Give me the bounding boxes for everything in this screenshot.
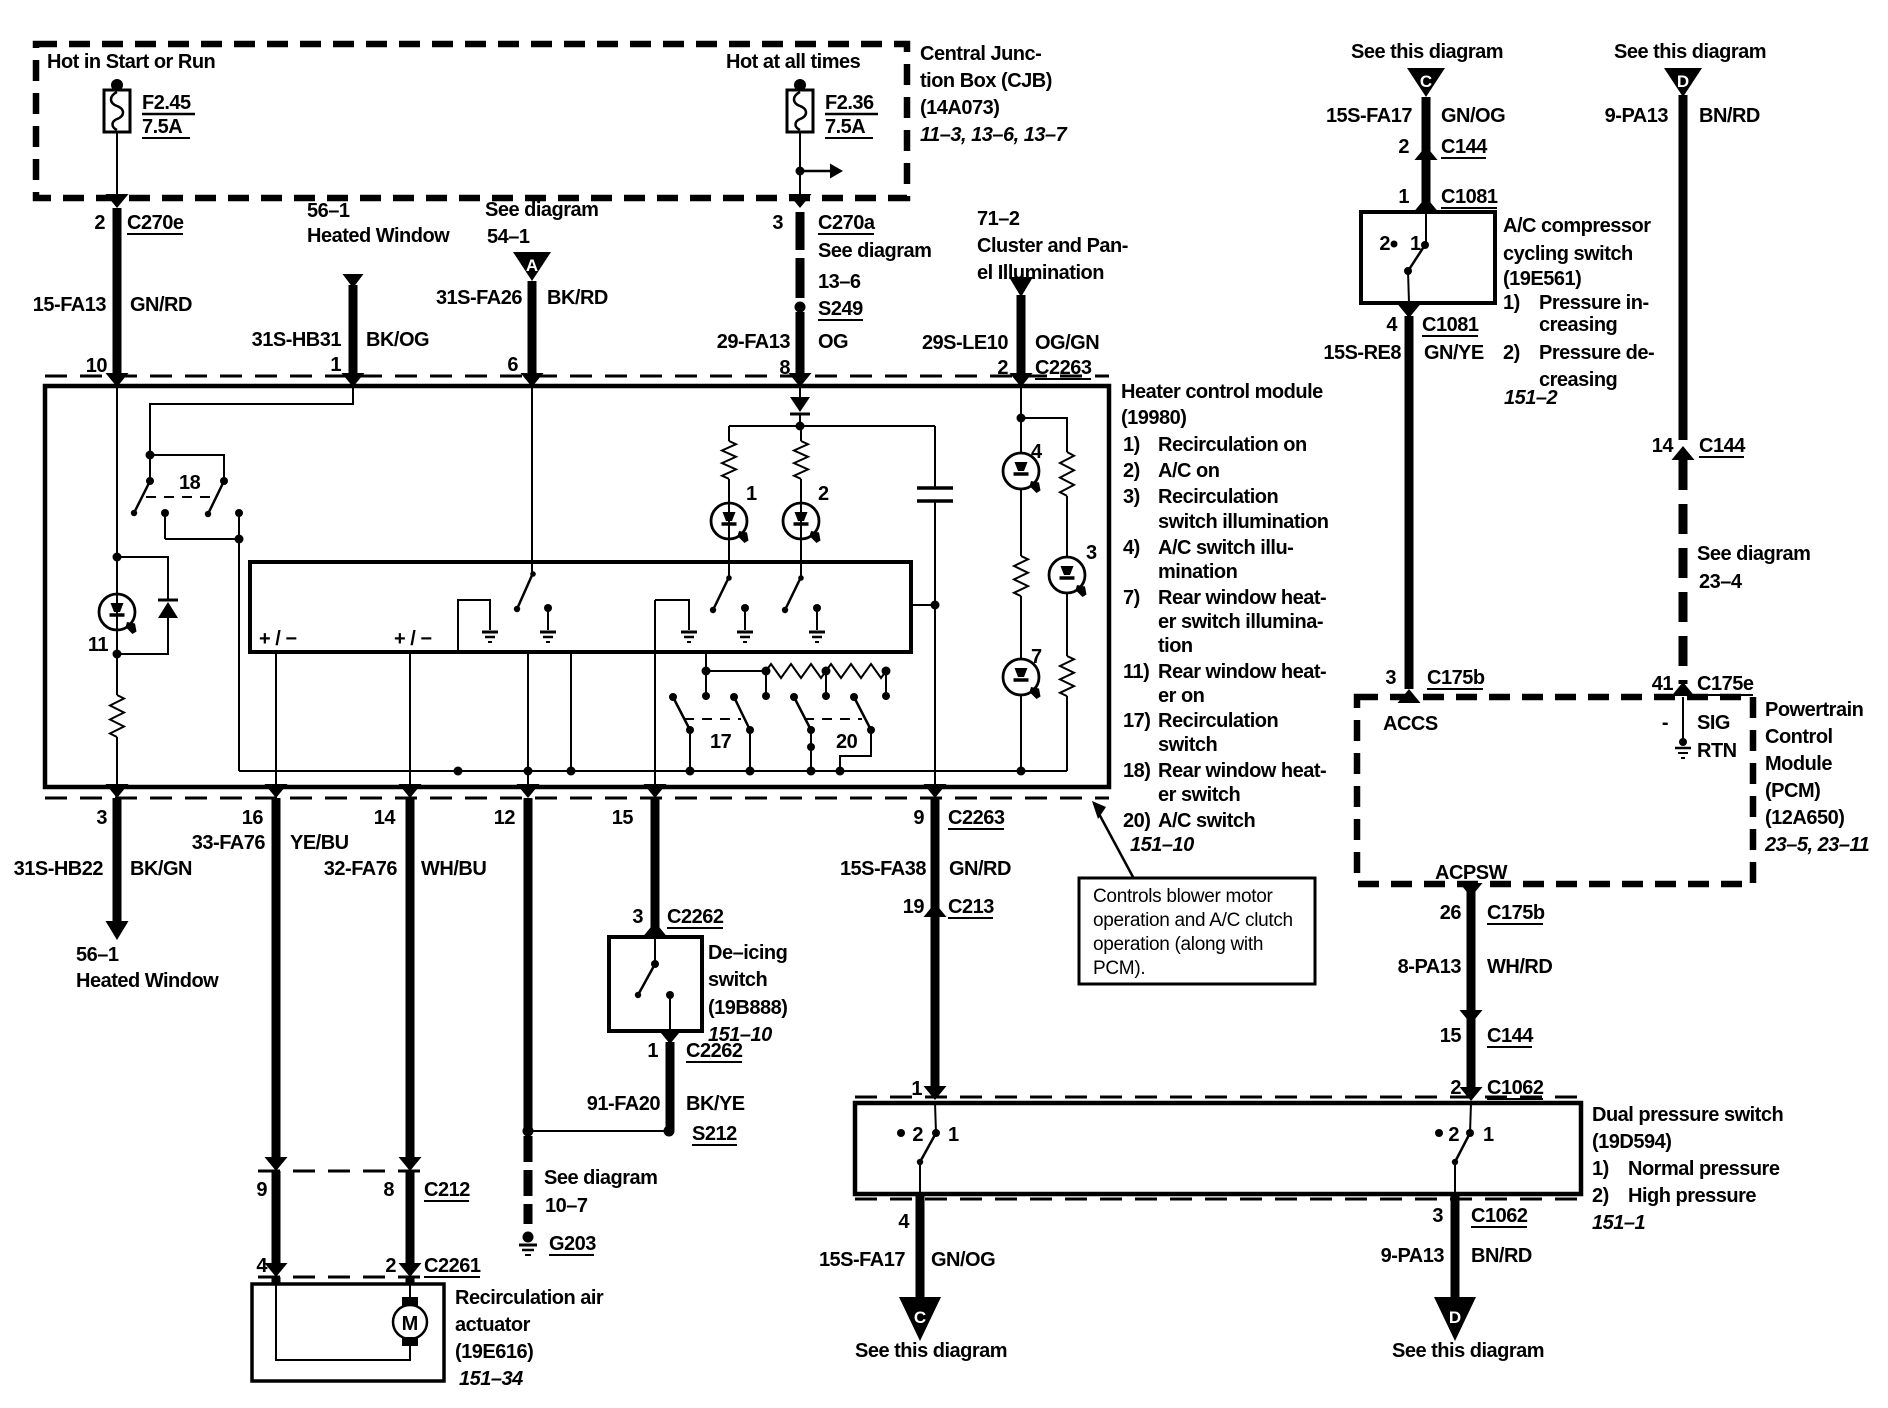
svg-text:G203: G203 xyxy=(549,1233,596,1255)
svg-text:S212: S212 xyxy=(692,1123,737,1145)
svg-text:SIG: SIG xyxy=(1697,712,1730,734)
svg-text:GN/YE: GN/YE xyxy=(1424,342,1484,364)
wire: pin 16 internal xyxy=(275,652,277,787)
svg-text:ACPSW: ACPSW xyxy=(1435,862,1508,884)
svg-text:18): 18) xyxy=(1123,760,1150,782)
svg-text:9: 9 xyxy=(256,1179,267,1201)
svg-text:OG/GN: OG/GN xyxy=(1035,332,1099,354)
svg-text:See this diagram: See this diagram xyxy=(1351,41,1503,63)
svg-text:(19E561): (19E561) xyxy=(1503,268,1581,290)
svg-text:C175b: C175b xyxy=(1427,667,1485,689)
svg-text:BN/RD: BN/RD xyxy=(1471,1245,1532,1267)
note: controls blower motor operation xyxy=(1079,878,1315,984)
svg-text:29S-LE10: 29S-LE10 xyxy=(922,332,1008,354)
svg-text:C: C xyxy=(1420,72,1432,91)
svg-text:C2262: C2262 xyxy=(686,1040,743,1062)
svg-text:Normal pressure: Normal pressure xyxy=(1628,1158,1780,1180)
svg-text:23–4: 23–4 xyxy=(1699,571,1743,593)
svg-text:2): 2) xyxy=(1592,1185,1609,1207)
svg-text:20: 20 xyxy=(836,731,858,753)
svg-text:7: 7 xyxy=(1031,646,1042,668)
svg-text:2: 2 xyxy=(912,1124,923,1146)
svg-text:9: 9 xyxy=(913,807,924,829)
svg-text:91-FA20: 91-FA20 xyxy=(587,1093,661,1115)
diode across lamp 11 xyxy=(113,557,179,659)
svg-text:creasing: creasing xyxy=(1539,314,1617,336)
svg-text:tion Box (CJB): tion Box (CJB) xyxy=(920,70,1052,92)
PCM SIG RTN ground xyxy=(1662,697,1737,762)
svg-text:15S-FA38: 15S-FA38 xyxy=(840,858,926,880)
svg-text:12: 12 xyxy=(494,807,516,829)
A/C compressor cycling switch contacts xyxy=(1379,212,1429,303)
wire: C213 to dual pressure switch pin 1 xyxy=(911,918,946,1100)
svg-text:C1062: C1062 xyxy=(1471,1205,1528,1227)
resistor feeding lamp 1 xyxy=(722,426,736,577)
svg-text:1): 1) xyxy=(1592,1158,1609,1180)
svg-text:C213: C213 xyxy=(948,896,994,918)
wire: pin 2 internal node xyxy=(1017,386,1068,452)
svg-text:7.5A: 7.5A xyxy=(142,116,182,138)
connector C212 xyxy=(256,1171,470,1201)
off-page connector C (bottom) xyxy=(855,1297,1007,1362)
svg-text:14: 14 xyxy=(374,807,397,829)
svg-text:2: 2 xyxy=(1450,1077,1461,1099)
wire 91-FA20 BK/YE below de-icing switch xyxy=(587,1030,745,1131)
diode on pin 8 line xyxy=(790,386,810,426)
svg-text:1: 1 xyxy=(911,1078,922,1100)
heater control module (19980) enclosure xyxy=(45,376,1109,798)
svg-text:(19D594): (19D594) xyxy=(1592,1131,1671,1153)
wire: fuse F2.45 to connector C270e xyxy=(106,132,129,208)
svg-text:3): 3) xyxy=(1123,486,1140,508)
switch on pin 6 line xyxy=(514,386,536,612)
svg-text:See this diagram: See this diagram xyxy=(1392,1340,1544,1362)
indicator lamp 11 (rear window heater on) xyxy=(88,553,137,657)
resistor feeding lamp 2 xyxy=(794,426,808,577)
svg-text:Pressure in-: Pressure in- xyxy=(1539,292,1649,314)
svg-text:See diagram: See diagram xyxy=(544,1167,657,1189)
svg-text:4: 4 xyxy=(1031,441,1043,463)
indicator lamp 2 (A/C on) xyxy=(783,483,829,543)
svg-text:See diagram: See diagram xyxy=(485,199,598,221)
heater box bottom pin labels xyxy=(96,807,633,829)
indicator lamp 3 (recirculation switch illumination) xyxy=(1049,542,1097,597)
svg-text:(14A073): (14A073) xyxy=(920,97,999,119)
wire 15-FA13 GN/RD to heater pin 10 xyxy=(33,208,192,387)
svg-text:26: 26 xyxy=(1440,902,1462,924)
svg-text:-: - xyxy=(1662,712,1668,734)
off-page connector D (bottom) xyxy=(1392,1297,1544,1362)
svg-text:S249: S249 xyxy=(818,298,863,320)
wire 15S-RE8 GN/YE to PCM ACCS xyxy=(1323,304,1484,703)
svg-text:See this diagram: See this diagram xyxy=(1614,41,1766,63)
svg-text:BK/OG: BK/OG xyxy=(366,329,429,351)
svg-text:151–10: 151–10 xyxy=(1130,834,1194,856)
svg-text:actuator: actuator xyxy=(455,1314,531,1336)
wire: switch 18 contacts to bottom rail xyxy=(161,509,244,771)
de-icing switch (19B888) box xyxy=(609,937,702,1031)
svg-text:D: D xyxy=(1449,1308,1461,1327)
switch under lamp 2 xyxy=(782,575,804,613)
connector C213 pin 19 xyxy=(903,896,994,918)
label: see diagram 10-7 xyxy=(544,1167,657,1217)
wire 31S-HB22 BK/GN to 56-1 heated window xyxy=(14,798,220,992)
de-icing switch contacts xyxy=(635,937,674,1031)
resistor above lamp 3 xyxy=(1060,452,1074,558)
ground bracket near pin 14 xyxy=(458,600,498,652)
wire 15S-FA17 GN/OG to connector C xyxy=(819,1194,995,1299)
svg-text:High pressure: High pressure xyxy=(1628,1185,1756,1207)
svg-text:switch illumination: switch illumination xyxy=(1158,511,1329,533)
switch 18 (rear window heater switch, DPST) xyxy=(131,451,228,518)
svg-text:(19B888): (19B888) xyxy=(708,997,787,1019)
svg-text:Central Junc-: Central Junc- xyxy=(920,43,1041,65)
note arrow to heater box xyxy=(1092,801,1133,877)
svg-text:C212: C212 xyxy=(424,1179,470,1201)
ground contact under lamp 1 xyxy=(737,604,753,642)
svg-text:Control: Control xyxy=(1765,726,1833,748)
dual pressure switch right contact (high pressure) xyxy=(1435,1103,1494,1194)
svg-text:2): 2) xyxy=(1503,342,1520,364)
svg-text:2: 2 xyxy=(1448,1124,1459,1146)
heater control module label list xyxy=(1121,381,1329,856)
wire 15S-FA38 GN/RD (pin 9) xyxy=(840,798,1011,918)
wire: fuse F2.36 to connector C270a with branch arrow xyxy=(789,132,844,208)
recirculation air actuator (19E616) box xyxy=(252,1277,444,1381)
svg-text:A/C compressor: A/C compressor xyxy=(1503,215,1651,237)
wire: pin 14 internal xyxy=(409,652,411,787)
svg-text:14: 14 xyxy=(1652,435,1675,457)
dual pressure switch (19D594) box xyxy=(855,1097,1581,1199)
svg-text:C2262: C2262 xyxy=(667,906,724,928)
indicator lamp 4 (A/C switch illumination) xyxy=(1003,418,1043,493)
fuse F2.45 7.5A xyxy=(104,79,195,138)
svg-text:1): 1) xyxy=(1503,292,1520,314)
svg-text:41: 41 xyxy=(1652,673,1674,695)
svg-text:OG: OG xyxy=(818,331,848,353)
indicator lamp 7 (rear window heater switch illumination) xyxy=(1003,646,1042,771)
capacitor xyxy=(917,426,953,605)
svg-text:Dual pressure switch: Dual pressure switch xyxy=(1592,1104,1783,1126)
svg-text:WH/RD: WH/RD xyxy=(1487,956,1552,978)
svg-text:A/C on: A/C on xyxy=(1158,460,1219,482)
svg-text:Powertrain: Powertrain xyxy=(1765,699,1863,721)
svg-text:operation (along with: operation (along with xyxy=(1093,934,1263,955)
heater box pin 16 arrow xyxy=(265,784,288,798)
wire: actuator internal xyxy=(276,1284,410,1360)
label: de-icing switch xyxy=(708,942,787,1046)
wire 32-FA76 WH/BU (pin 14) xyxy=(324,798,487,1171)
svg-text:Module: Module xyxy=(1765,753,1832,775)
svg-text:1: 1 xyxy=(1483,1124,1494,1146)
svg-text:2: 2 xyxy=(818,483,829,505)
svg-text:32-FA76: 32-FA76 xyxy=(324,858,398,880)
svg-text:Cluster and Pan-: Cluster and Pan- xyxy=(977,235,1128,257)
wire: C212 to C2261 (right) xyxy=(399,1171,422,1277)
resistor below lamp 4 xyxy=(1014,488,1028,660)
svg-text:BK/YE: BK/YE xyxy=(686,1093,745,1115)
dual pressure switch left contact (normal pressure) xyxy=(897,1103,959,1194)
svg-text:Heated Window: Heated Window xyxy=(76,970,219,992)
switch 17 (recirculation switch) xyxy=(669,693,754,771)
svg-text:GN/OG: GN/OG xyxy=(931,1249,995,1271)
heater box pin 9 arrow xyxy=(924,784,947,798)
svg-text:C1081: C1081 xyxy=(1441,186,1498,208)
svg-text:56–1: 56–1 xyxy=(76,944,119,966)
svg-text:BK/RD: BK/RD xyxy=(547,287,608,309)
svg-text:See this diagram: See this diagram xyxy=(855,1340,1007,1362)
svg-text:1: 1 xyxy=(647,1040,658,1062)
svg-text:9-PA13: 9-PA13 xyxy=(1605,105,1669,127)
svg-text:Hot at all times: Hot at all times xyxy=(726,51,861,73)
wire 31S-HB31 BK/OG from 56-1 heated window to heater pin 1 xyxy=(252,200,451,387)
svg-text:17: 17 xyxy=(710,731,732,753)
wire 29S-LE10 OG/GN from cluster and panel illumination to heater pin 2 xyxy=(922,208,1128,387)
svg-text:Hot in Start or Run: Hot in Start or Run xyxy=(47,51,215,73)
svg-text:11): 11) xyxy=(1123,661,1149,683)
wire 31S-FA26 BK/RD to heater pin 6 xyxy=(436,281,608,387)
svg-text:(12A650): (12A650) xyxy=(1765,807,1844,829)
svg-text:2): 2) xyxy=(1123,460,1140,482)
label: powertrain control module xyxy=(1764,699,1870,856)
svg-text:Rear window heat-: Rear window heat- xyxy=(1158,661,1326,683)
resistor below lamp 3 xyxy=(1060,592,1074,771)
svg-text:C270a: C270a xyxy=(818,212,876,234)
connector C270e pin 2 xyxy=(94,212,183,234)
svg-text:Recirculation air: Recirculation air xyxy=(455,1287,604,1309)
svg-text:See diagram: See diagram xyxy=(1697,543,1810,565)
svg-text:3: 3 xyxy=(1432,1205,1443,1227)
svg-text:A/C switch: A/C switch xyxy=(1158,810,1255,832)
svg-text:23–5, 23–11: 23–5, 23–11 xyxy=(1764,834,1870,856)
splice S212 xyxy=(664,1123,738,1145)
svg-text:1): 1) xyxy=(1123,434,1140,456)
wire: pin 8 distribution node xyxy=(729,422,935,431)
svg-text:2: 2 xyxy=(94,212,105,234)
svg-text:De–icing: De–icing xyxy=(708,942,787,964)
svg-text:Heater control module: Heater control module xyxy=(1121,381,1323,403)
wire 91-FA13 BK/OG (pin 12) to splice S212 xyxy=(523,798,670,1137)
svg-text:F2.45: F2.45 xyxy=(142,92,191,114)
ground bracket near pin 15 xyxy=(655,600,697,642)
svg-text:8-PA13: 8-PA13 xyxy=(1398,956,1462,978)
svg-text:operation and A/C clutch: operation and A/C clutch xyxy=(1093,910,1293,931)
svg-text:A/C switch illu-: A/C switch illu- xyxy=(1158,537,1293,559)
svg-text:(PCM): (PCM) xyxy=(1765,780,1820,802)
svg-text:15S-FA17: 15S-FA17 xyxy=(819,1249,905,1271)
off-page connector A (see diagram 54-1) xyxy=(485,199,598,281)
svg-text:3: 3 xyxy=(632,906,643,928)
svg-text:4): 4) xyxy=(1123,537,1140,559)
wire: S212 to ground G203 (dashed) xyxy=(524,1136,533,1224)
control unit inner box with +/- terminals xyxy=(250,562,911,652)
svg-text:71–2: 71–2 xyxy=(977,208,1020,230)
svg-text:18: 18 xyxy=(179,472,201,494)
svg-text:4: 4 xyxy=(898,1211,910,1233)
svg-text:15S-FA17: 15S-FA17 xyxy=(1326,105,1412,127)
ground contact under lamp 2 xyxy=(809,604,825,642)
connector C270a pin 3 xyxy=(772,212,875,234)
svg-text:cycling switch: cycling switch xyxy=(1503,243,1633,265)
svg-text:31S-HB22: 31S-HB22 xyxy=(14,858,104,880)
svg-text:15: 15 xyxy=(612,807,634,829)
svg-text:RTN: RTN xyxy=(1697,740,1737,762)
wire: pin 10 internal xyxy=(116,386,118,557)
svg-text:+ / −: + / − xyxy=(394,628,432,650)
svg-text:4: 4 xyxy=(256,1255,268,1277)
svg-text:C2263: C2263 xyxy=(948,807,1005,829)
svg-text:Controls blower motor: Controls blower motor xyxy=(1093,886,1274,907)
svg-text:PCM).: PCM). xyxy=(1093,958,1145,979)
svg-text:15S-RE8: 15S-RE8 xyxy=(1323,342,1401,364)
resistor in series with lamp 11 (pin 3 branch) xyxy=(110,654,124,787)
wire: pin 12 internal xyxy=(524,652,533,787)
svg-text:20): 20) xyxy=(1123,810,1150,832)
svg-text:2: 2 xyxy=(1379,233,1390,255)
svg-text:4: 4 xyxy=(1386,314,1398,336)
svg-text:3: 3 xyxy=(96,807,107,829)
svg-text:M: M xyxy=(402,1313,419,1335)
svg-text:GN/OG: GN/OG xyxy=(1441,105,1505,127)
svg-text:switch: switch xyxy=(708,969,767,991)
svg-text:17): 17) xyxy=(1123,710,1150,732)
svg-text:2: 2 xyxy=(385,1255,396,1277)
node: bracket leg on rail xyxy=(454,767,463,776)
svg-text:151–34: 151–34 xyxy=(459,1368,523,1390)
svg-text:+ / −: + / − xyxy=(259,628,297,650)
heater box pin 3 arrow xyxy=(106,784,129,798)
svg-text:1: 1 xyxy=(1398,186,1409,208)
svg-text:(19E616): (19E616) xyxy=(455,1341,533,1363)
svg-text:F2.36: F2.36 xyxy=(825,92,874,114)
ground contact for pin 6 switch xyxy=(540,604,556,642)
svg-text:16: 16 xyxy=(242,807,264,829)
heater box pin 12 arrow xyxy=(517,784,540,798)
heater box pin 14 arrow xyxy=(399,784,422,798)
svg-text:er switch: er switch xyxy=(1158,784,1240,806)
svg-text:BN/RD: BN/RD xyxy=(1699,105,1760,127)
svg-text:GN/RD: GN/RD xyxy=(130,294,192,316)
svg-text:el Illumination: el Illumination xyxy=(977,262,1104,284)
svg-text:15-FA13: 15-FA13 xyxy=(33,294,107,316)
svg-text:31S-HB31: 31S-HB31 xyxy=(252,329,342,351)
A/C compressor cycling switch (19E561) box xyxy=(1361,212,1495,303)
svg-text:C175b: C175b xyxy=(1487,902,1545,924)
svg-text:C2261: C2261 xyxy=(424,1255,481,1277)
svg-text:6: 6 xyxy=(507,354,518,376)
svg-text:54–1: 54–1 xyxy=(487,226,530,248)
svg-text:tion: tion xyxy=(1158,635,1193,657)
wire 9-PA13 BN/RD to connector D xyxy=(1381,1194,1532,1299)
svg-text:151–2: 151–2 xyxy=(1504,387,1557,409)
central junction box (CJB) dashed enclosure xyxy=(36,44,907,198)
svg-text:switch: switch xyxy=(1158,734,1217,756)
svg-text:15: 15 xyxy=(1440,1025,1462,1047)
svg-text:Recirculation on: Recirculation on xyxy=(1158,434,1307,456)
heater box pin 15 arrow xyxy=(644,784,667,798)
label: dual pressure switch xyxy=(1592,1104,1783,1234)
svg-text:10–7: 10–7 xyxy=(545,1195,588,1217)
fuse F2.36 7.5A xyxy=(787,79,878,138)
svg-text:Pressure de-: Pressure de- xyxy=(1539,342,1654,364)
svg-text:BK/GN: BK/GN xyxy=(130,858,192,880)
label: A/C compressor cycling switch xyxy=(1503,215,1654,409)
svg-text:Rear window heat-: Rear window heat- xyxy=(1158,760,1326,782)
wire 91S-FA20 BK/YE (pin 15) to de-icing switch xyxy=(632,798,723,936)
svg-text:56–1: 56–1 xyxy=(307,200,350,222)
wire: pin 1 internal xyxy=(150,386,353,451)
svg-text:10: 10 xyxy=(86,355,108,377)
svg-text:D: D xyxy=(1677,72,1689,91)
off-page connector C (top) xyxy=(1351,41,1503,97)
wire 9-PA13 BN/RD to C144 xyxy=(1605,95,1760,460)
svg-text:Heated Window: Heated Window xyxy=(307,225,450,247)
svg-text:YE/BU: YE/BU xyxy=(290,832,349,854)
svg-text:mination: mination xyxy=(1158,561,1237,583)
svg-text:7.5A: 7.5A xyxy=(825,116,865,138)
svg-text:3: 3 xyxy=(772,212,783,234)
label: recirculation air actuator xyxy=(455,1287,604,1390)
svg-text:11–3, 13–6, 13–7: 11–3, 13–6, 13–7 xyxy=(920,124,1068,146)
svg-text:Rear window heat-: Rear window heat- xyxy=(1158,587,1326,609)
svg-text:Recirculation: Recirculation xyxy=(1158,710,1278,732)
indicator lamp 1 (recirculation on) xyxy=(711,483,757,543)
wire: see diagram 23-4 (dashed) to C175e xyxy=(1652,460,1811,696)
svg-text:1: 1 xyxy=(330,354,341,376)
svg-text:WH/BU: WH/BU xyxy=(421,858,486,880)
svg-text:11: 11 xyxy=(88,634,109,656)
wire: bottom rail xyxy=(239,767,1067,776)
svg-text:C270e: C270e xyxy=(127,212,184,234)
svg-text:See diagram: See diagram xyxy=(818,240,931,262)
wire: pin 15 internal xyxy=(654,600,656,787)
svg-text:33-FA76: 33-FA76 xyxy=(192,832,266,854)
blower speed resistor chain xyxy=(702,652,891,700)
wire: capacitor to inner box and pin 9 xyxy=(911,601,940,788)
switch 20 (A/C switch) xyxy=(790,693,875,771)
svg-text:1: 1 xyxy=(746,483,757,505)
wire 29-FA13 OG with splice S249 to heater pin 8 xyxy=(717,212,932,387)
svg-text:9-PA13: 9-PA13 xyxy=(1381,1245,1445,1267)
wire 33-FA76 YE/BU (pin 16) xyxy=(192,798,349,1171)
wire 8-PA13 WH/RD from ACPSW xyxy=(1398,883,1553,1101)
label: Central Junction Box (CJB) (14A073) xyxy=(920,43,1068,146)
svg-text:er switch illumina-: er switch illumina- xyxy=(1158,611,1323,633)
off-page connector D (top) xyxy=(1614,41,1766,97)
svg-text:C144: C144 xyxy=(1441,136,1488,158)
svg-text:(19980): (19980) xyxy=(1121,407,1186,429)
svg-text:151–1: 151–1 xyxy=(1592,1212,1645,1234)
svg-text:1: 1 xyxy=(948,1124,959,1146)
wire: inner box to rail (left tap) xyxy=(567,652,576,776)
svg-text:3: 3 xyxy=(1086,542,1097,564)
connector C2261 xyxy=(256,1255,480,1277)
svg-text:GN/RD: GN/RD xyxy=(949,858,1011,880)
svg-text:C175e: C175e xyxy=(1697,673,1754,695)
svg-text:7): 7) xyxy=(1123,587,1140,609)
svg-text:A: A xyxy=(526,256,538,275)
switch under lamp 1 xyxy=(710,575,732,613)
wire 15S-FA17 GN/OG through C144 and C1081 xyxy=(1326,97,1505,212)
actuator motor M xyxy=(393,1297,427,1346)
svg-text:C144: C144 xyxy=(1699,435,1746,457)
svg-text:31S-FA26: 31S-FA26 xyxy=(436,287,522,309)
svg-text:2: 2 xyxy=(1398,136,1409,158)
svg-text:C1081: C1081 xyxy=(1422,314,1479,336)
svg-text:8: 8 xyxy=(383,1179,394,1201)
powertrain control module (PCM) dashed box xyxy=(1357,697,1753,884)
svg-text:C: C xyxy=(914,1308,926,1327)
